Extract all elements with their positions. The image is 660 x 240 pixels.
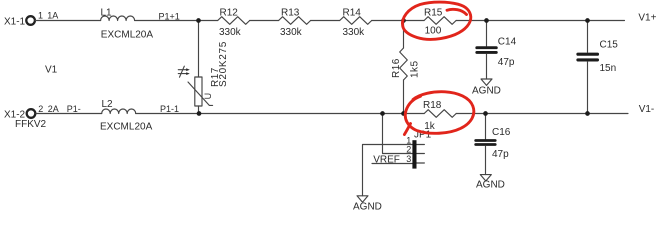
inductor L1 (101, 16, 135, 21)
svg-text:FFKV2: FFKV2 (15, 119, 47, 130)
wire R13 to R14 (311, 20, 340, 22)
varistor R17 surge arrows (178, 66, 186, 77)
red annotation circle around R18 (404, 92, 473, 135)
svg-text:330k: 330k (343, 27, 366, 38)
junction node P1+1/R17 (196, 18, 201, 23)
svg-text:L1: L1 (101, 8, 113, 19)
wire C14 bottom lead (486, 54, 488, 79)
wire L2 to R18 (node P1-1) (136, 113, 425, 115)
svg-text:EXCML20A: EXCML20A (100, 121, 153, 132)
svg-text:AGND: AGND (476, 180, 505, 191)
pin header JP1 body (412, 140, 416, 168)
svg-text:AGND: AGND (353, 202, 382, 213)
wire R14 to R15 (372, 20, 424, 22)
resistor R18 (424, 110, 456, 118)
ground AGND (JP1) (357, 196, 368, 202)
svg-text:R13: R13 (281, 7, 300, 18)
resistor R13 (279, 17, 311, 25)
wire C14 top lead (486, 21, 488, 47)
wire JP1 pin 1 to AGND (363, 145, 413, 196)
svg-text:3: 3 (406, 154, 411, 164)
svg-text:VREF: VREF (373, 155, 400, 166)
ground AGND (C14) (481, 79, 492, 85)
wire net P1- from X1-2 pin to L2 (36, 113, 102, 115)
wire C16 top lead (485, 114, 487, 140)
svg-text:C14: C14 (498, 36, 517, 47)
ground AGND (C16) (480, 175, 491, 181)
svg-text:1k5: 1k5 (409, 60, 420, 78)
svg-text:AGND: AGND (472, 85, 501, 96)
junction node C14 top (484, 18, 489, 23)
svg-text:1: 1 (38, 11, 43, 21)
capacitor C15 plates (578, 54, 598, 60)
wire R16 bottom lead (403, 80, 405, 114)
resistor R16 (400, 48, 408, 80)
wire R17 bottom lead (198, 106, 200, 114)
svg-text:R14: R14 (343, 7, 362, 18)
svg-text:L2: L2 (102, 99, 114, 110)
junction node R16 bottom (401, 111, 406, 116)
svg-text:C15: C15 (600, 40, 619, 51)
connector pin X1-2 (27, 109, 36, 118)
resistor R15 (424, 17, 456, 25)
svg-text:R12: R12 (220, 7, 239, 18)
junction node P1-1/R17 bottom (197, 111, 202, 116)
svg-text:330k: 330k (280, 27, 303, 38)
pin header JP1 right stubs (416, 145, 424, 164)
junction node C15 top (585, 18, 590, 23)
wire R15 to V1+ (456, 20, 624, 22)
wire net from X1-1 pin to L1 (35, 20, 101, 22)
svg-text:2: 2 (38, 104, 43, 114)
svg-text:R15: R15 (424, 7, 443, 18)
svg-text:V1+: V1+ (638, 12, 656, 23)
wire C16 bottom lead (485, 146, 487, 175)
junction node C16 top (483, 111, 488, 116)
inductor L2 (102, 109, 136, 113)
varistor R17 diagonal stroke (188, 82, 213, 105)
junction node R16 top (401, 18, 406, 23)
junction node JP1 pin2 (380, 111, 385, 116)
svg-text:P1-1: P1-1 (160, 104, 179, 114)
svg-text:47p: 47p (498, 57, 515, 68)
red annotation circle around R15 (402, 2, 470, 39)
wire C15 bottom lead (587, 62, 589, 114)
svg-text:2A: 2A (48, 104, 59, 114)
capacitor C16 plates (476, 141, 496, 145)
wire L1 to R12 (node P1+1) (135, 20, 218, 22)
svg-text:100: 100 (425, 26, 442, 37)
wire JP1 pin 2 riser to V1- net (383, 114, 413, 154)
junction node C15 bottom (585, 111, 590, 116)
connector pin X1-1 (26, 16, 35, 25)
svg-text:15n: 15n (600, 63, 617, 74)
svg-text:P1+1: P1+1 (159, 11, 180, 21)
resistor R12 (218, 17, 250, 25)
resistor R14 (340, 17, 372, 25)
svg-text:R16: R16 (391, 58, 402, 78)
svg-text:P1-: P1- (67, 104, 81, 114)
capacitor C14 plates (477, 48, 497, 53)
wire R17 top lead (198, 21, 200, 78)
svg-text:330k: 330k (219, 27, 242, 38)
svg-text:S20K275: S20K275 (218, 41, 229, 87)
svg-text:V1: V1 (45, 64, 58, 75)
svg-text:R18: R18 (423, 100, 442, 111)
wire R12 to R13 (250, 20, 279, 22)
svg-text:47p: 47p (492, 149, 509, 160)
wire C15 top lead (587, 21, 589, 53)
svg-text:C16: C16 (492, 127, 511, 138)
svg-text:U: U (203, 93, 213, 100)
svg-text:1A: 1A (47, 11, 58, 21)
svg-text:EXCML20A: EXCML20A (101, 30, 154, 41)
svg-text:V1-: V1- (639, 104, 655, 115)
varistor R17 body (195, 77, 202, 106)
wire R18 to V1- (456, 113, 628, 115)
wire R16 top lead (403, 21, 405, 49)
svg-text:X1-1: X1-1 (4, 16, 26, 27)
wire VREF net to JP1 pin 3 (372, 163, 413, 165)
